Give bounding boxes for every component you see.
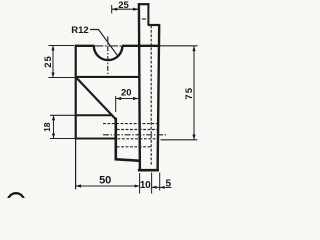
- wire top tab top edge: [138, 3, 150, 5]
- hidden line dash in top tab: [142, 18, 146, 20]
- wire step vertical edge: [115, 118, 118, 160]
- hidden line vertical in column: [150, 26, 152, 166]
- svg-text:25: 25: [118, 0, 129, 11]
- hidden line y138 right part: [118, 138, 159, 140]
- hidden line y146: [117, 146, 151, 148]
- center line horizontal y134: [103, 134, 167, 136]
- dimension 18 left: [50, 115, 75, 138]
- wire internal edge y115: [75, 114, 112, 116]
- svg-text:20: 20: [121, 88, 132, 99]
- dimension 5 bottom: [152, 173, 172, 191]
- hidden line y123: [103, 123, 157, 125]
- wire diagonal edge: [76, 77, 116, 119]
- svg-text:18: 18: [42, 122, 52, 132]
- wire internal edge y138: [75, 138, 117, 140]
- wire column right edge: [158, 24, 160, 171]
- wire body left edge: [75, 45, 77, 139]
- dimension 25 top: [112, 5, 139, 14]
- svg-text:R12: R12: [71, 25, 88, 36]
- wire body top edge right of notch: [122, 45, 160, 47]
- dimension 50 bottom: [76, 139, 140, 193]
- wire body bottom edge: [115, 159, 141, 161]
- dimension 20: [116, 96, 139, 112]
- wire column left edge: [139, 3, 140, 171]
- dimension 10 bottom: [151, 173, 153, 194]
- wire internal edge y77: [75, 76, 140, 78]
- svg-text:25: 25: [43, 55, 54, 68]
- node R12 notch arc: [94, 46, 123, 60]
- dimension 75 right: [160, 46, 198, 140]
- wire column bottom edge: [138, 169, 159, 172]
- svg-text:50: 50: [99, 175, 111, 187]
- figure label circle (clipped): [8, 193, 25, 210]
- wire body top edge left of notch: [75, 45, 94, 47]
- svg-text:5: 5: [166, 178, 172, 189]
- svg-text:75: 75: [184, 87, 195, 100]
- center line horizontal across notch: [94, 45, 123, 47]
- wire top tab right edge: [147, 3, 149, 25]
- svg-text:10: 10: [140, 180, 151, 191]
- wire step at y25: [148, 24, 160, 26]
- dimension 25 left: [49, 46, 80, 78]
- center line vertical of notch: [107, 37, 109, 76]
- hidden line y129: [117, 129, 159, 131]
